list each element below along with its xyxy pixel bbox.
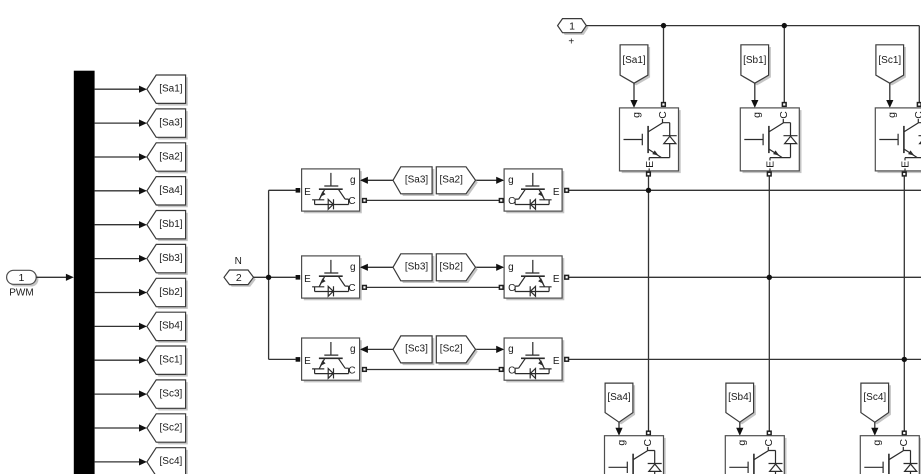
svg-text:g: g: [871, 440, 883, 446]
svg-text:[Sa2]: [Sa2]: [159, 151, 183, 162]
svg-text:E: E: [765, 161, 777, 168]
svg-text:E: E: [900, 161, 912, 168]
svg-text:[Sb2]: [Sb2]: [159, 287, 183, 298]
svg-text:E: E: [553, 356, 560, 367]
svg-text:PWM: PWM: [9, 288, 33, 299]
svg-text:[Sc1]: [Sc1]: [160, 355, 183, 366]
svg-text:[Sc2]: [Sc2]: [440, 344, 463, 355]
svg-text:[Sa2]: [Sa2]: [440, 175, 464, 186]
svg-text:[Sc4]: [Sc4]: [863, 392, 886, 403]
svg-text:g: g: [751, 112, 763, 118]
svg-text:g: g: [350, 344, 356, 355]
svg-text:[Sb2]: [Sb2]: [440, 262, 464, 273]
svg-text:[Sa3]: [Sa3]: [159, 117, 183, 128]
svg-text:[Sa3]: [Sa3]: [405, 175, 429, 186]
svg-text:E: E: [553, 274, 560, 285]
svg-text:C: C: [763, 438, 775, 446]
svg-text:[Sb1]: [Sb1]: [743, 55, 767, 66]
svg-text:1: 1: [18, 272, 24, 284]
svg-text:[Sb4]: [Sb4]: [159, 321, 183, 332]
svg-text:C: C: [642, 438, 654, 446]
svg-text:2: 2: [236, 272, 242, 284]
svg-text:[Sc1]: [Sc1]: [878, 55, 901, 66]
svg-text:g: g: [886, 112, 898, 118]
svg-text:E: E: [644, 161, 656, 168]
svg-text:[Sb4]: [Sb4]: [728, 392, 752, 403]
svg-text:C: C: [348, 196, 355, 207]
svg-text:E: E: [304, 187, 311, 198]
svg-text:E: E: [304, 274, 311, 285]
svg-text:[Sa4]: [Sa4]: [607, 392, 631, 403]
svg-text:C: C: [898, 438, 910, 446]
svg-text:C: C: [508, 283, 515, 294]
svg-text:[Sa1]: [Sa1]: [622, 55, 646, 66]
svg-text:g: g: [350, 175, 356, 186]
svg-text:g: g: [508, 344, 514, 355]
svg-text:C: C: [913, 111, 921, 119]
svg-text:N: N: [235, 256, 242, 267]
svg-text:[Sc3]: [Sc3]: [405, 344, 428, 355]
svg-text:g: g: [508, 262, 514, 273]
svg-text:g: g: [630, 112, 642, 118]
svg-text:[Sc4]: [Sc4]: [160, 456, 183, 467]
svg-text:C: C: [348, 365, 355, 376]
svg-text:C: C: [778, 111, 790, 119]
svg-text:g: g: [350, 262, 356, 273]
svg-text:[Sc2]: [Sc2]: [160, 422, 183, 433]
svg-text:C: C: [508, 365, 515, 376]
svg-text:C: C: [657, 111, 669, 119]
svg-text:[Sb3]: [Sb3]: [405, 262, 429, 273]
svg-text:g: g: [508, 175, 514, 186]
svg-text:E: E: [304, 356, 311, 367]
svg-text:1: 1: [569, 20, 575, 32]
svg-text:C: C: [348, 283, 355, 294]
svg-text:[Sc3]: [Sc3]: [160, 388, 183, 399]
svg-text:+: +: [568, 37, 574, 48]
svg-text:[Sa4]: [Sa4]: [159, 185, 183, 196]
svg-text:g: g: [615, 440, 627, 446]
svg-text:E: E: [553, 187, 560, 198]
svg-text:[Sb1]: [Sb1]: [159, 219, 183, 230]
svg-text:[Sa1]: [Sa1]: [159, 84, 183, 95]
svg-text:C: C: [508, 196, 515, 207]
svg-text:g: g: [736, 440, 748, 446]
svg-text:[Sb3]: [Sb3]: [159, 253, 183, 264]
